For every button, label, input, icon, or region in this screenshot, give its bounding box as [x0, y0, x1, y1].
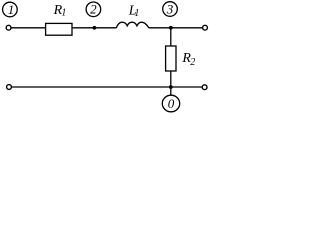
label R1: [53, 3, 67, 18]
label R2: [181, 51, 195, 68]
svg-text:2: 2: [190, 57, 195, 68]
svg-text:0: 0: [168, 96, 175, 111]
wire: bottom rail right segment: [171, 86, 202, 88]
node 2: [86, 2, 101, 17]
terminal P2+ (top-right): [203, 25, 208, 30]
wire: L1 to terminal P2+: [149, 27, 203, 29]
terminal P1+ (top-left): [6, 25, 11, 30]
wire: terminal P1+ to R1: [11, 27, 45, 29]
terminal P2- (bottom-right): [202, 85, 207, 90]
wire: stub from bottom rail to node 0: [170, 87, 172, 95]
label L1: [128, 3, 140, 19]
resistor R1: [46, 23, 72, 35]
node 1: [3, 2, 18, 17]
svg-text:1: 1: [61, 8, 66, 19]
junction node 3: [169, 26, 173, 30]
terminal P1- (bottom-left): [7, 85, 12, 90]
inductor L1: [116, 22, 149, 28]
svg-text:2: 2: [90, 2, 97, 17]
wire: R1 to L1: [72, 27, 116, 29]
junction node 2: [93, 26, 97, 30]
svg-text:3: 3: [166, 1, 174, 16]
wire: node 3 down to R2: [170, 28, 172, 46]
svg-text:1: 1: [134, 8, 139, 19]
node 3: [163, 1, 178, 16]
junction bottom (node 0 tap): [169, 85, 173, 89]
svg-text:1: 1: [8, 2, 15, 17]
node 0: [162, 95, 179, 112]
resistor R2: [166, 46, 176, 71]
wire: bottom rail left segment: [12, 86, 171, 88]
wire: R2 down to bottom rail: [170, 71, 172, 87]
